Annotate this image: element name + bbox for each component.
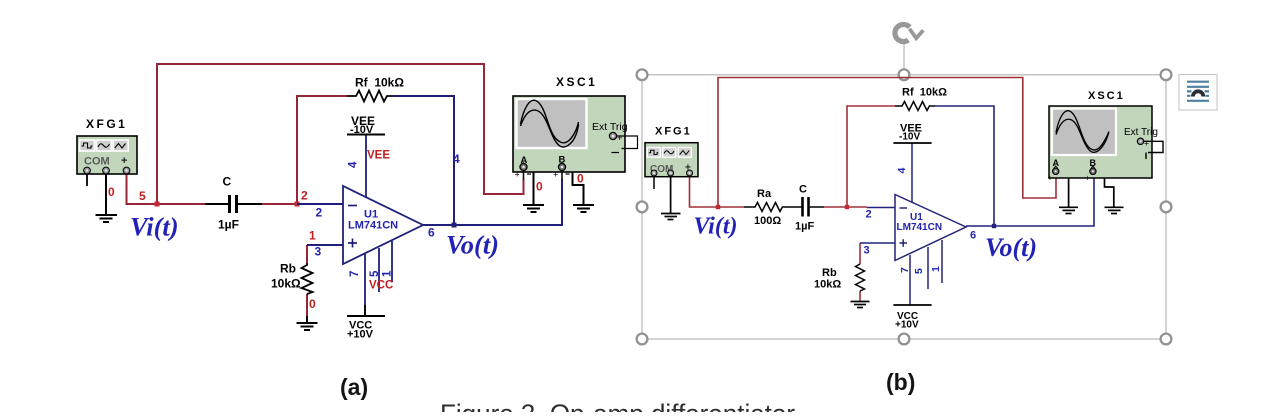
svg-text:LM741CN: LM741CN: [348, 220, 398, 232]
svg-text:1: 1: [309, 229, 316, 243]
svg-text:4: 4: [348, 161, 360, 168]
svg-text:XFG1: XFG1: [86, 117, 127, 131]
svg-text:VEE: VEE: [367, 150, 390, 162]
svg-text:Vi(t): Vi(t): [694, 214, 738, 240]
svg-text:Ra: Ra: [757, 188, 772, 200]
svg-text:Rf 10kΩ: Rf 10kΩ: [902, 87, 947, 99]
svg-text:+: +: [1144, 138, 1149, 148]
svg-text:-10V: -10V: [350, 124, 374, 136]
svg-text:0: 0: [309, 297, 316, 311]
svg-text:+: +: [515, 170, 520, 180]
svg-text:Rb: Rb: [280, 262, 296, 276]
svg-text:2: 2: [301, 189, 308, 203]
svg-text:Ext Trig: Ext Trig: [592, 121, 628, 133]
svg-text:(b): (b): [886, 369, 915, 395]
svg-text:3: 3: [864, 245, 870, 257]
svg-text:10kΩ: 10kΩ: [814, 279, 841, 291]
svg-text:4: 4: [896, 168, 908, 174]
svg-text:LM741CN: LM741CN: [897, 222, 943, 233]
svg-text:Rf 10kΩ: Rf 10kΩ: [355, 76, 404, 90]
svg-text:Vi(t): Vi(t): [130, 212, 179, 242]
svg-text:4: 4: [453, 152, 460, 166]
svg-text:C: C: [799, 184, 807, 196]
svg-text:Ext Trig: Ext Trig: [1124, 127, 1158, 138]
svg-text:0: 0: [577, 172, 584, 186]
svg-text:1: 1: [930, 266, 942, 272]
svg-text:10kΩ: 10kΩ: [271, 277, 301, 291]
svg-text:+: +: [1085, 173, 1090, 183]
svg-text:XSC1: XSC1: [556, 75, 597, 89]
svg-text:6: 6: [428, 226, 435, 240]
svg-text:+: +: [121, 155, 127, 167]
svg-text:3: 3: [315, 245, 322, 259]
svg-text:+10V: +10V: [347, 329, 374, 341]
svg-text:0: 0: [108, 185, 115, 199]
svg-text:2: 2: [316, 206, 323, 220]
svg-text:100Ω: 100Ω: [754, 215, 781, 227]
svg-text:2: 2: [866, 209, 872, 221]
svg-text:(a): (a): [340, 374, 368, 400]
svg-text:VCC: VCC: [369, 280, 393, 292]
svg-text:5: 5: [913, 268, 925, 274]
svg-text:Vo(t): Vo(t): [985, 233, 1037, 262]
svg-text:Vo(t): Vo(t): [446, 230, 499, 260]
svg-text:XFG1: XFG1: [655, 126, 692, 138]
svg-text:XSC1: XSC1: [1088, 90, 1125, 102]
svg-text:5: 5: [139, 189, 146, 203]
svg-text:+: +: [553, 170, 558, 180]
svg-text:Figure 3. Op-amp differentiato: Figure 3. Op-amp differentiator: [440, 399, 795, 413]
svg-text:7: 7: [349, 271, 361, 277]
svg-text:6: 6: [970, 230, 976, 242]
svg-text:-10V: -10V: [899, 132, 920, 143]
svg-text:1µF: 1µF: [218, 218, 239, 232]
svg-text:+: +: [617, 133, 622, 143]
svg-text:Rb: Rb: [822, 267, 837, 279]
svg-text:+: +: [1048, 173, 1053, 183]
svg-text:1: 1: [382, 270, 394, 277]
svg-text:COM: COM: [84, 156, 110, 168]
svg-text:7: 7: [899, 267, 911, 273]
svg-text:5: 5: [369, 270, 381, 277]
svg-text:1µF: 1µF: [795, 221, 814, 233]
svg-text:+10V: +10V: [895, 320, 919, 331]
svg-text:0: 0: [536, 180, 543, 194]
svg-text:C: C: [223, 175, 232, 189]
